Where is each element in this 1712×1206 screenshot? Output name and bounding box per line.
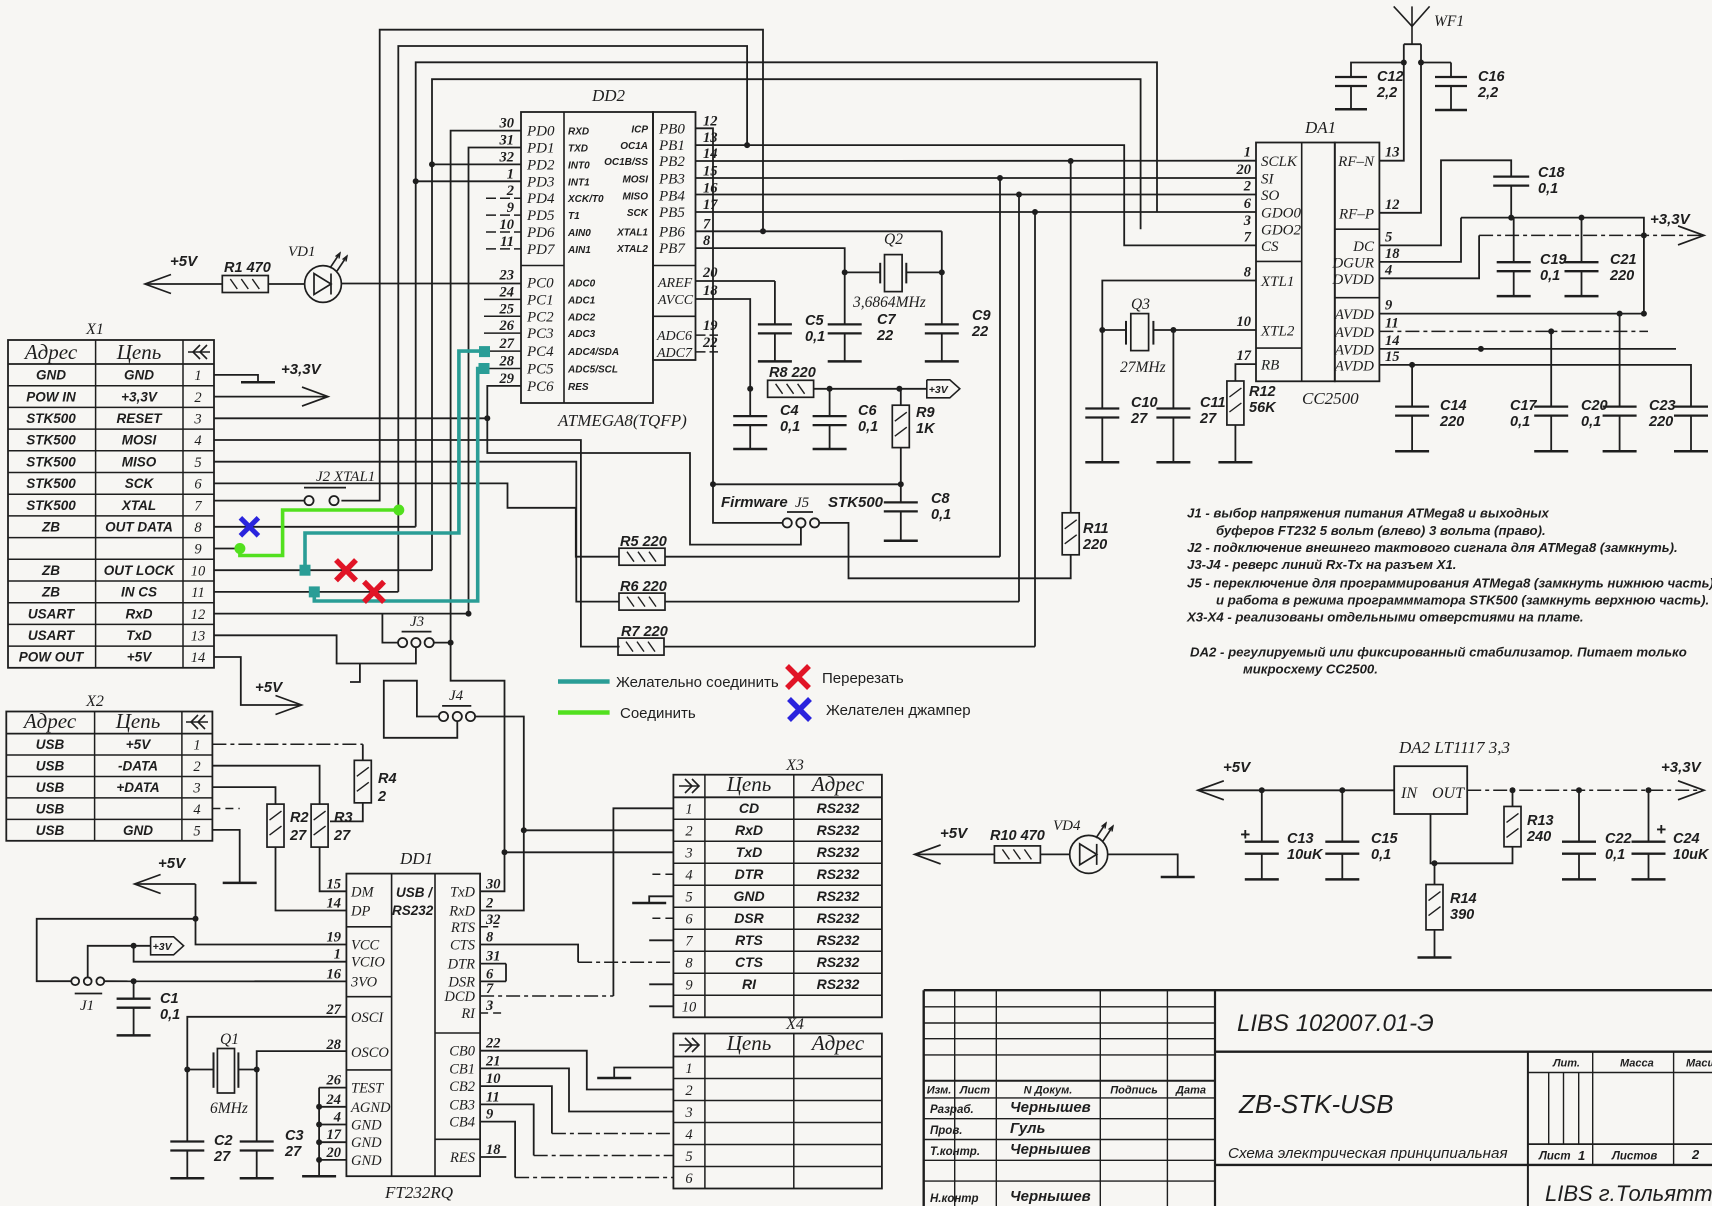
svg-text:RB: RB: [1260, 358, 1279, 374]
svg-text:Лист: Лист: [1538, 1151, 1571, 1163]
svg-text:VCC: VCC: [351, 938, 380, 954]
svg-text:DSR: DSR: [447, 974, 475, 990]
capacitor C24 10uK polarized: [1648, 790, 1650, 841]
wire X1 XTAL row to jumper J2: [214, 500, 304, 502]
svg-text:LIBS г.Тольятти: LIBS г.Тольятти: [1545, 1181, 1712, 1206]
svg-text:1: 1: [193, 738, 200, 754]
ground X2: [223, 882, 257, 885]
svg-text:6MHz: 6MHz: [210, 1100, 248, 1117]
svg-text:J3-J4 - реверс линий Rx-Tx на: J3-J4 - реверс линий Rx-Tx на разъем X1.: [1187, 557, 1456, 572]
svg-text:C11: C11: [1200, 395, 1226, 411]
svg-text:Разраб.: Разраб.: [930, 1104, 974, 1116]
svg-text:DP: DP: [350, 904, 370, 920]
svg-text:C6: C6: [858, 403, 877, 419]
crystal Q3 27MHz: [1102, 296, 1256, 376]
svg-text:PD1: PD1: [526, 141, 555, 157]
svg-text:USB: USB: [36, 801, 65, 816]
svg-text:PB3: PB3: [658, 172, 685, 188]
svg-text:C8: C8: [931, 491, 950, 507]
node PD2 junction: [429, 161, 435, 167]
svg-text:XTAL1: XTAL1: [616, 227, 648, 238]
svg-text:10uK: 10uK: [1287, 847, 1324, 863]
wire PB7 XTAL2: [696, 248, 845, 324]
ground C6: [813, 448, 847, 451]
IC DD2 ATMEGA8(TQFP): [484, 86, 718, 430]
svg-text:27: 27: [284, 1144, 302, 1160]
wire J3 crossover spur: [350, 664, 360, 683]
svg-text:X1: X1: [85, 321, 104, 338]
capacitor C17 0,1: [1550, 331, 1552, 406]
svg-text:INT0: INT0: [568, 160, 590, 171]
wire +5V feed arrow: [135, 875, 161, 894]
svg-text:CB3: CB3: [449, 1097, 475, 1113]
svg-text:Чернышев: Чернышев: [1010, 1099, 1091, 1116]
wire SI to R5 riser: [999, 178, 1001, 557]
wire X2 GND: [212, 830, 239, 883]
svg-text:Адрес: Адрес: [23, 340, 78, 364]
svg-text:PB2: PB2: [658, 154, 685, 170]
svg-text:Масса: Масса: [1620, 1058, 1654, 1070]
svg-text:14: 14: [1385, 333, 1400, 349]
svg-text:DD2: DD2: [591, 86, 626, 105]
svg-text:8: 8: [703, 233, 711, 249]
resistor R12 56K: [1227, 381, 1244, 425]
svg-text:RXD: RXD: [568, 127, 589, 138]
svg-text:26: 26: [499, 318, 515, 334]
svg-text:1K: 1K: [916, 421, 936, 437]
svg-text:DC: DC: [1352, 239, 1375, 255]
svg-text:2,2: 2,2: [1477, 85, 1498, 101]
capacitor C11: [1172, 330, 1174, 409]
svg-text:30: 30: [485, 876, 501, 892]
svg-text:+3,3V: +3,3V: [1650, 211, 1692, 228]
node AVDD15/C14: [1409, 362, 1415, 368]
svg-text:8: 8: [685, 956, 693, 972]
svg-text:ADC1: ADC1: [567, 295, 596, 306]
wire +5V input: [1198, 781, 1224, 800]
node firmware left: [710, 481, 716, 487]
svg-text:5: 5: [193, 823, 200, 839]
svg-text:11: 11: [1385, 315, 1399, 331]
capacitor C3 27: [256, 1070, 258, 1142]
svg-text:DA2 - регулируемый или фиксиро: DA2 - регулируемый или фиксированный ста…: [1190, 645, 1687, 660]
svg-text:7: 7: [194, 498, 202, 514]
svg-text:ADC0: ADC0: [567, 278, 596, 289]
svg-text:3: 3: [192, 780, 200, 796]
svg-text:8: 8: [1244, 265, 1252, 281]
wire XTAL loop PB6 to J2: [341, 30, 763, 501]
IC DA1 CC2500: [1236, 118, 1401, 408]
svg-text:19: 19: [327, 930, 342, 946]
capacitor C14 220: [1411, 365, 1413, 407]
resistor R10 470: [994, 846, 1040, 863]
svg-text:ATMEGA8(TQFP): ATMEGA8(TQFP): [557, 411, 687, 430]
svg-text:15: 15: [327, 876, 342, 892]
svg-text:USB /: USB /: [396, 885, 433, 900]
svg-text:XTAL2: XTAL2: [616, 244, 648, 255]
wire X2 row4 stub: [212, 808, 239, 810]
svg-text:PB4: PB4: [658, 188, 685, 204]
svg-text:PB6: PB6: [658, 224, 685, 240]
svg-text:3: 3: [684, 846, 692, 862]
ground VD4: [1161, 876, 1195, 879]
capacitor C23 220: [1674, 405, 1708, 407]
svg-text:+5V: +5V: [255, 679, 284, 696]
svg-text:22: 22: [702, 335, 718, 351]
wire AVCC to R8: [696, 299, 751, 389]
svg-text:17: 17: [327, 1127, 342, 1143]
svg-text:RxD: RxD: [448, 904, 475, 920]
svg-text:14: 14: [191, 650, 206, 666]
svg-text:X3-X4 - реализованы отдельными: X3-X4 - реализованы отдельными отверстия…: [1186, 610, 1584, 625]
resistor R1: [222, 276, 268, 293]
svg-text:PB1: PB1: [658, 138, 685, 154]
svg-text:0,1: 0,1: [805, 329, 825, 345]
svg-text:4: 4: [685, 868, 692, 884]
svg-text:Чернышев: Чернышев: [1010, 1141, 1091, 1158]
svg-text:3VO: 3VO: [350, 974, 378, 990]
svg-text:1: 1: [685, 802, 692, 818]
svg-text:11: 11: [500, 234, 514, 250]
ground C2: [170, 1177, 204, 1180]
svg-text:16: 16: [327, 966, 342, 982]
svg-text:STK500: STK500: [26, 433, 76, 448]
wire PB1 to CS: [696, 145, 1257, 245]
svg-text:OC1A: OC1A: [620, 141, 648, 152]
svg-text:R5 220: R5 220: [620, 534, 667, 550]
wire R11 riser: [1070, 161, 1072, 513]
overlay teal wire PC4 to OUT LOCK: [305, 351, 484, 570]
svg-text:R14: R14: [1450, 891, 1477, 907]
svg-text:GND: GND: [733, 888, 764, 904]
wire CTS to X3 pin8: [480, 945, 578, 963]
svg-text:+5V: +5V: [1223, 759, 1252, 776]
capacitor C22 0,1: [1578, 790, 1580, 841]
svg-text:C4: C4: [780, 403, 799, 419]
wire CB3 to X4 pin5: [480, 1104, 534, 1155]
svg-text:2,2: 2,2: [1376, 85, 1397, 101]
ground DD1: [302, 1175, 336, 1178]
svg-text:9: 9: [194, 542, 202, 558]
wire PB3 MOSI to SI: [696, 177, 1257, 179]
wire R13 bottom to ADJ: [1431, 814, 1513, 863]
svg-text:MISO: MISO: [622, 191, 648, 202]
svg-text:1: 1: [194, 368, 201, 384]
svg-text:R8 220: R8 220: [769, 365, 816, 381]
node R8 left: [747, 386, 753, 392]
wire X1 MISO row to R6: [214, 462, 620, 602]
ground C23: [1674, 450, 1708, 453]
wire X1 row9 stub: [214, 548, 240, 550]
wire SO to R6 riser: [1018, 195, 1020, 602]
svg-text:USART: USART: [28, 606, 76, 621]
wire R2 to DP: [276, 847, 347, 910]
wire AVDD11: [1379, 330, 1648, 332]
node +5V split: [193, 916, 199, 922]
svg-text:RES: RES: [568, 382, 589, 393]
wire X3 pin4 stub: [651, 873, 673, 875]
capacitor C12 2,2: [1351, 63, 1404, 78]
capacitor C7: [828, 323, 862, 325]
wire loop PD2/GDO2 net: [432, 79, 1141, 570]
wire C9 riser: [941, 231, 943, 324]
svg-text:3,6864MHz: 3,6864MHz: [852, 294, 926, 311]
crystal Q2 3.6864MHz: [845, 231, 942, 311]
svg-text:4: 4: [685, 1127, 692, 1143]
svg-text:0,1: 0,1: [1538, 181, 1558, 197]
svg-text:1: 1: [1244, 145, 1251, 161]
wire DC to C18: [1379, 160, 1511, 245]
svg-text:AGND: AGND: [350, 1100, 391, 1116]
svg-text:3: 3: [1243, 213, 1251, 229]
svg-text:RESET: RESET: [116, 411, 163, 426]
wire PC6 RES riser: [487, 386, 801, 545]
svg-text:Н.контр: Н.контр: [930, 1193, 979, 1205]
svg-text:TxD: TxD: [736, 844, 762, 860]
svg-text:DTR: DTR: [447, 957, 476, 973]
svg-text:Желательно соединить: Желательно соединить: [616, 674, 779, 691]
svg-text:CD: CD: [739, 800, 759, 816]
svg-text:12: 12: [1385, 197, 1400, 213]
wire 3VO to J1 right: [104, 980, 346, 982]
svg-text:RS232: RS232: [817, 932, 860, 948]
svg-text:13: 13: [703, 130, 718, 146]
node C12 tap: [1401, 60, 1407, 66]
node Q2 right: [939, 269, 945, 275]
svg-text:GDO2: GDO2: [1261, 223, 1301, 239]
svg-text:5: 5: [194, 455, 201, 471]
wire RxD net to X3 pin2: [524, 829, 674, 831]
svg-text:27: 27: [213, 1149, 231, 1165]
svg-text:18: 18: [1385, 246, 1400, 262]
svg-text:Лит.: Лит.: [1552, 1058, 1580, 1070]
svg-text:14: 14: [327, 896, 342, 912]
svg-text:RS232: RS232: [817, 954, 860, 970]
wire PD2 stub: [432, 163, 521, 165]
svg-text:POW OUT: POW OUT: [19, 650, 85, 665]
wire DD1 ground bus: [319, 1087, 346, 1089]
wire X3 pin5 ground: [649, 896, 673, 903]
node C6 junction: [827, 386, 833, 392]
svg-text:ADC6: ADC6: [656, 329, 692, 344]
svg-text:SI: SI: [1261, 172, 1275, 188]
svg-text:0,1: 0,1: [1581, 414, 1601, 430]
svg-text:R13: R13: [1527, 813, 1554, 829]
svg-text:C18: C18: [1538, 165, 1566, 181]
svg-text:Q3: Q3: [1131, 296, 1150, 313]
svg-text:+3,3V: +3,3V: [281, 361, 323, 378]
svg-text:AIN1: AIN1: [567, 245, 591, 256]
connector X2 table: [6, 693, 212, 841]
node R14 top: [1432, 860, 1438, 866]
node VCIO junction: [131, 943, 137, 949]
node C21 top: [1579, 215, 1585, 221]
svg-text:RS232: RS232: [817, 888, 860, 904]
svg-text:C13: C13: [1287, 831, 1314, 847]
ground C20: [1603, 450, 1637, 453]
svg-text:+5V: +5V: [170, 253, 199, 270]
svg-text:2: 2: [685, 1083, 692, 1099]
wire R6 right: [665, 601, 1019, 603]
svg-text:24: 24: [326, 1092, 342, 1108]
svg-text:24: 24: [499, 284, 515, 300]
svg-text:ZB-STK-USB: ZB-STK-USB: [1238, 1089, 1394, 1119]
svg-text:J3: J3: [410, 614, 424, 630]
svg-text:C2: C2: [214, 1133, 233, 1149]
svg-text:SCK: SCK: [125, 476, 155, 491]
svg-text:2: 2: [506, 183, 514, 199]
legend cut mark: [787, 666, 809, 688]
svg-text:Соединить: Соединить: [620, 705, 696, 722]
svg-text:RxD: RxD: [125, 606, 152, 621]
svg-text:Желателен джампер: Желателен джампер: [826, 702, 971, 719]
svg-text:10uK: 10uK: [1673, 847, 1710, 863]
svg-text:Цепь: Цепь: [726, 1031, 772, 1055]
svg-text:15: 15: [1385, 349, 1400, 365]
svg-text:4: 4: [333, 1110, 341, 1126]
resistor R13 240: [1512, 790, 1514, 806]
node Q1 right: [254, 1067, 260, 1073]
svg-text:SCLK: SCLK: [1261, 154, 1298, 170]
wire PB6 XTAL1: [696, 230, 942, 232]
svg-text:12: 12: [703, 113, 718, 129]
svg-text:USART: USART: [28, 628, 76, 643]
svg-text:11: 11: [191, 585, 204, 601]
svg-text:C1: C1: [160, 991, 179, 1007]
overlay blue X jumper mark on OUT DATA: [240, 518, 258, 536]
svg-text:2: 2: [377, 789, 386, 805]
svg-text:AREF: AREF: [657, 276, 693, 291]
svg-text:Подпись: Подпись: [1110, 1085, 1158, 1097]
svg-text:2: 2: [1243, 179, 1251, 195]
svg-text:Цепь: Цепь: [115, 709, 161, 733]
svg-text:IN: IN: [1400, 785, 1418, 802]
svg-text:SO: SO: [1261, 188, 1280, 204]
svg-text:и работа в режима программмато: и работа в режима программматора STK500 …: [1216, 593, 1709, 608]
svg-text:27: 27: [326, 1002, 342, 1018]
svg-text:AVDD: AVDD: [1334, 325, 1374, 341]
wire R4 bottom: [330, 803, 363, 822]
svg-text:RI: RI: [742, 976, 757, 992]
ground C22: [1562, 878, 1596, 881]
svg-text:Firmware: Firmware: [721, 494, 788, 511]
svg-text:RES: RES: [449, 1150, 476, 1166]
capacitor C18 0,1: [1493, 175, 1529, 177]
legend connect line: [558, 710, 610, 715]
svg-text:21: 21: [485, 1053, 501, 1069]
node AVDD14: [1478, 346, 1484, 352]
ground C17: [1534, 450, 1568, 453]
svg-text:XTL1: XTL1: [1260, 274, 1294, 290]
svg-text:11: 11: [486, 1089, 500, 1105]
svg-text:PC5: PC5: [526, 362, 554, 378]
svg-text:PC4: PC4: [526, 344, 554, 360]
svg-text:R7 220: R7 220: [621, 624, 668, 640]
svg-text:C24: C24: [1673, 831, 1700, 847]
svg-text:R9: R9: [916, 405, 935, 421]
svg-text:C12: C12: [1377, 69, 1404, 85]
svg-text:USB: USB: [36, 758, 65, 773]
svg-text:WF1: WF1: [1434, 13, 1464, 30]
svg-text:FT232RQ: FT232RQ: [384, 1183, 453, 1202]
svg-text:OC1B/SS: OC1B/SS: [604, 157, 648, 168]
svg-text:DM: DM: [350, 884, 374, 900]
wire X1 IN CS row: [214, 591, 398, 593]
svg-text:Цепь: Цепь: [726, 772, 772, 796]
svg-text:CC2500: CC2500: [1302, 389, 1359, 408]
svg-text:+3,3V: +3,3V: [1661, 759, 1703, 776]
svg-text:OSCI: OSCI: [351, 1010, 384, 1026]
svg-text:Адрес: Адрес: [810, 1031, 865, 1055]
svg-text:Дата: Дата: [1175, 1085, 1206, 1097]
svg-text:J4: J4: [449, 688, 464, 704]
capacitor C10: [1085, 407, 1119, 409]
node J3 right junction: [448, 640, 454, 646]
LED VD4: [1053, 818, 1113, 873]
wire +5V to R10: [915, 845, 941, 864]
jumper J2 XTAL1: [304, 469, 375, 505]
svg-text:USB: USB: [36, 780, 65, 795]
svg-text:C22: C22: [1605, 831, 1632, 847]
wire X1 GND pin1: [214, 375, 258, 382]
svg-text:+5V: +5V: [158, 855, 187, 872]
wire R1 to VD1: [268, 283, 304, 285]
ground C24: [1632, 878, 1666, 881]
svg-text:MOSI: MOSI: [122, 433, 157, 448]
jumper J4 and crossover: [384, 681, 475, 738]
svg-text:+3V: +3V: [929, 384, 949, 396]
svg-text:56K: 56K: [1249, 400, 1277, 416]
ground C15: [1325, 878, 1359, 881]
svg-text:6: 6: [685, 912, 693, 928]
svg-text:PC3: PC3: [526, 326, 554, 342]
title block frame: [924, 990, 1712, 1206]
node C15: [1339, 787, 1345, 793]
svg-text:Цепь: Цепь: [116, 340, 162, 364]
ground X4 pin1: [597, 1077, 631, 1080]
svg-text:3: 3: [684, 1105, 692, 1121]
legend desirable-connect line: [558, 679, 610, 684]
wire DCD to X3 pin1: [480, 995, 613, 997]
node RESET junction: [484, 415, 490, 421]
svg-text:AVDD: AVDD: [1334, 358, 1374, 374]
wire RF-P feed: [1379, 44, 1421, 213]
svg-text:PC6: PC6: [526, 379, 554, 395]
svg-text:Масшт: Масшт: [1686, 1058, 1712, 1070]
svg-text:RxD: RxD: [735, 822, 763, 838]
svg-text:PC2: PC2: [526, 309, 554, 325]
svg-text:7: 7: [1244, 229, 1252, 245]
svg-text:CB2: CB2: [449, 1079, 475, 1095]
svg-text:+DATA: +DATA: [116, 780, 159, 795]
wire X1 OUT LOCK row: [214, 569, 432, 571]
svg-text:0,1: 0,1: [1605, 847, 1625, 863]
svg-text:18: 18: [703, 283, 718, 299]
svg-text:29: 29: [499, 371, 515, 387]
svg-text:VD4: VD4: [1053, 818, 1081, 834]
wire DD1 RTS stub: [480, 926, 498, 928]
svg-text:31: 31: [485, 949, 501, 965]
svg-text:+3,3V: +3,3V: [121, 389, 158, 404]
svg-text:22: 22: [971, 324, 988, 340]
wire J3 right circle link: [434, 642, 451, 644]
wire DD1 RI stub: [480, 1012, 506, 1014]
svg-text:PD5: PD5: [526, 208, 555, 224]
svg-text:GND: GND: [36, 368, 66, 383]
svg-text:Q2: Q2: [884, 231, 903, 248]
ground C10: [1085, 461, 1119, 464]
connector X4 table: [673, 1016, 882, 1189]
